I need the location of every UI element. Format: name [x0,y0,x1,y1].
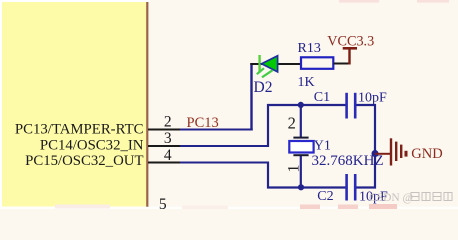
bar [343,47,357,50]
diode D2 (green LED) [257,55,278,77]
svg-text:5: 5 [159,196,167,209]
svg-text:GND: GND [411,146,442,162]
junction node at GND tap [372,150,379,157]
power port VCC3.3 [327,34,374,65]
pin 2 line [148,129,182,131]
emission slash 1 [257,68,264,74]
bottom rail wire [267,186,346,188]
wire vertical up to diode row [250,63,252,131]
ground GND [375,138,443,165]
svg-text:10pF: 10pF [358,91,387,106]
svg-text:1K: 1K [298,75,315,90]
svg-text:CSDN @: CSDN @ [369,192,413,204]
IC U1 right border [146,2,148,207]
gnd bar 1 [390,138,392,165]
svg-text:VCC3.3: VCC3.3 [327,34,374,50]
junction node at crystal top [298,102,304,108]
anode triangle [262,56,278,72]
crystal Y1 body [289,141,313,153]
wire pin3 to corner [180,145,269,147]
svg-text:2: 2 [288,113,296,132]
bottom rail wire right of C2 [356,186,377,188]
svg-text:R13: R13 [298,41,321,56]
top rail wire [267,104,346,106]
watermark CSDN [369,192,452,204]
capacitor C2 plates [345,174,348,201]
wire diode row horizontal (black pins of D2) [250,63,301,65]
svg-text:PC14/OSC32_IN: PC14/OSC32_IN [40,138,144,154]
svg-text:D2: D2 [254,79,273,96]
resistor R13 body [301,57,333,69]
svg-text:Y1: Y1 [314,138,331,153]
wire resistor to power stem [334,63,351,65]
junction node at crystal bottom [298,184,304,190]
svg-text:C1: C1 [314,90,330,105]
svg-text:C2: C2 [317,189,333,204]
faint bottom-edge watermark remnants [55,205,110,209]
gnd stub [375,153,390,155]
svg-text:1: 1 [286,165,303,173]
svg-text:PC13/TAMPER-RTC: PC13/TAMPER-RTC [15,122,144,138]
wire vertical pin3 up to top rail [267,104,269,147]
svg-text:4: 4 [164,147,172,164]
gnd bar 2 [395,142,397,161]
IC U1 body (yellow block) [2,2,147,207]
pin 3 line [148,145,182,147]
crystal Y1 branch wire bottom [300,155,302,187]
capacitor C1 plates [345,93,348,119]
crystal Y1 bottom plate [293,154,308,156]
faint top-edge watermark remnants [339,0,379,3]
svg-text:3: 3 [164,130,172,147]
white margin strip top-left and bottom [0,0,150,3]
gnd bar 3 [400,145,402,158]
gnd bar 4 [405,151,408,157]
right rail wire [374,104,376,189]
wire pin4 to corner [180,162,269,164]
wire pin2 to corner [180,129,253,131]
watermark CJK glyph blocks [411,193,452,201]
svg-text:2: 2 [164,113,172,130]
crystal Y1 branch wire top [300,105,302,138]
emission slash 2 [262,70,273,77]
pin 4 line [148,162,182,164]
svg-text:PC15/OSC32_OUT: PC15/OSC32_OUT [25,153,143,169]
stem [348,48,350,65]
cathode bar [258,55,260,73]
top rail wire right of C1 [356,104,377,106]
crystal Y1 top plate [293,137,308,139]
wire vertical pin4 down to bottom rail [267,162,269,189]
